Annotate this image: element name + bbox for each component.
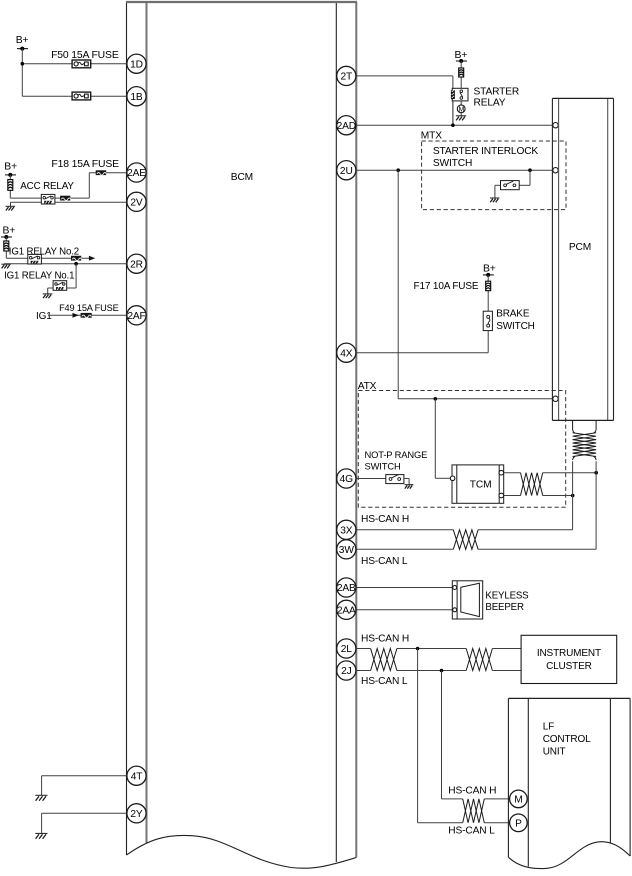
svg-text:3X: 3X xyxy=(340,525,353,536)
svg-text:HS-CAN H: HS-CAN H xyxy=(361,633,409,644)
svg-text:STARTER INTERLOCK: STARTER INTERLOCK xyxy=(433,146,539,157)
svg-text:PCM: PCM xyxy=(569,242,591,253)
svg-text:B+: B+ xyxy=(455,50,468,61)
svg-text:IG1: IG1 xyxy=(36,311,52,322)
svg-text:F17 10A FUSE: F17 10A FUSE xyxy=(414,281,479,292)
svg-text:2T: 2T xyxy=(341,72,353,83)
svg-text:2R: 2R xyxy=(130,259,143,270)
svg-text:B+: B+ xyxy=(3,226,16,237)
svg-text:CLUSTER: CLUSTER xyxy=(546,661,592,672)
svg-text:CONTROL: CONTROL xyxy=(543,734,591,745)
svg-text:F50 15A FUSE: F50 15A FUSE xyxy=(51,50,119,61)
svg-text:2AB: 2AB xyxy=(337,583,356,594)
svg-text:F49 15A FUSE: F49 15A FUSE xyxy=(59,303,119,313)
svg-text:SWITCH: SWITCH xyxy=(365,461,401,472)
svg-text:HS-CAN H: HS-CAN H xyxy=(361,514,409,525)
svg-text:F18 15A FUSE: F18 15A FUSE xyxy=(51,159,119,170)
svg-text:1B: 1B xyxy=(130,92,143,103)
svg-text:STARTER: STARTER xyxy=(474,86,520,97)
svg-text:BRAKE: BRAKE xyxy=(496,308,530,319)
svg-text:B+: B+ xyxy=(483,264,496,275)
svg-text:B+: B+ xyxy=(16,35,29,46)
svg-text:4G: 4G xyxy=(340,474,354,485)
svg-text:2J: 2J xyxy=(341,666,352,677)
svg-text:IG1 RELAY No.2: IG1 RELAY No.2 xyxy=(9,246,79,257)
svg-text:2AD: 2AD xyxy=(337,121,356,132)
svg-text:B+: B+ xyxy=(4,161,17,172)
svg-text:UNIT: UNIT xyxy=(543,746,566,757)
svg-text:RELAY: RELAY xyxy=(474,98,506,109)
svg-text:MTX: MTX xyxy=(421,130,442,141)
svg-text:SWITCH: SWITCH xyxy=(496,321,535,332)
svg-text:4X: 4X xyxy=(340,348,353,359)
svg-text:HS-CAN L: HS-CAN L xyxy=(361,556,408,567)
svg-text:KEYLESS: KEYLESS xyxy=(485,590,529,601)
svg-text:HS-CAN L: HS-CAN L xyxy=(361,676,408,687)
svg-text:BCM: BCM xyxy=(231,172,253,183)
svg-text:SWITCH: SWITCH xyxy=(433,158,472,169)
svg-text:HS-CAN L: HS-CAN L xyxy=(448,826,495,837)
svg-text:IG1 RELAY No.1: IG1 RELAY No.1 xyxy=(4,270,74,281)
svg-text:P: P xyxy=(515,818,522,829)
svg-text:3W: 3W xyxy=(339,545,355,556)
svg-text:2Y: 2Y xyxy=(130,809,143,820)
svg-text:TCM: TCM xyxy=(470,479,492,490)
svg-text:4T: 4T xyxy=(131,771,143,782)
svg-text:M: M xyxy=(458,107,464,114)
svg-text:NOT-P RANGE: NOT-P RANGE xyxy=(365,449,428,460)
svg-text:1D: 1D xyxy=(130,59,143,70)
svg-text:LF: LF xyxy=(543,721,554,732)
svg-text:2U: 2U xyxy=(340,166,353,177)
svg-text:BEEPER: BEEPER xyxy=(485,602,524,613)
svg-text:2V: 2V xyxy=(130,197,143,208)
svg-text:M: M xyxy=(514,795,522,806)
svg-text:HS-CAN H: HS-CAN H xyxy=(448,785,496,796)
svg-text:2AE: 2AE xyxy=(127,168,146,179)
svg-text:ACC RELAY: ACC RELAY xyxy=(20,181,74,192)
svg-text:2AF: 2AF xyxy=(127,311,145,322)
svg-text:INSTRUMENT: INSTRUMENT xyxy=(537,648,601,659)
svg-text:2AA: 2AA xyxy=(337,605,356,616)
svg-text:2L: 2L xyxy=(341,644,353,655)
